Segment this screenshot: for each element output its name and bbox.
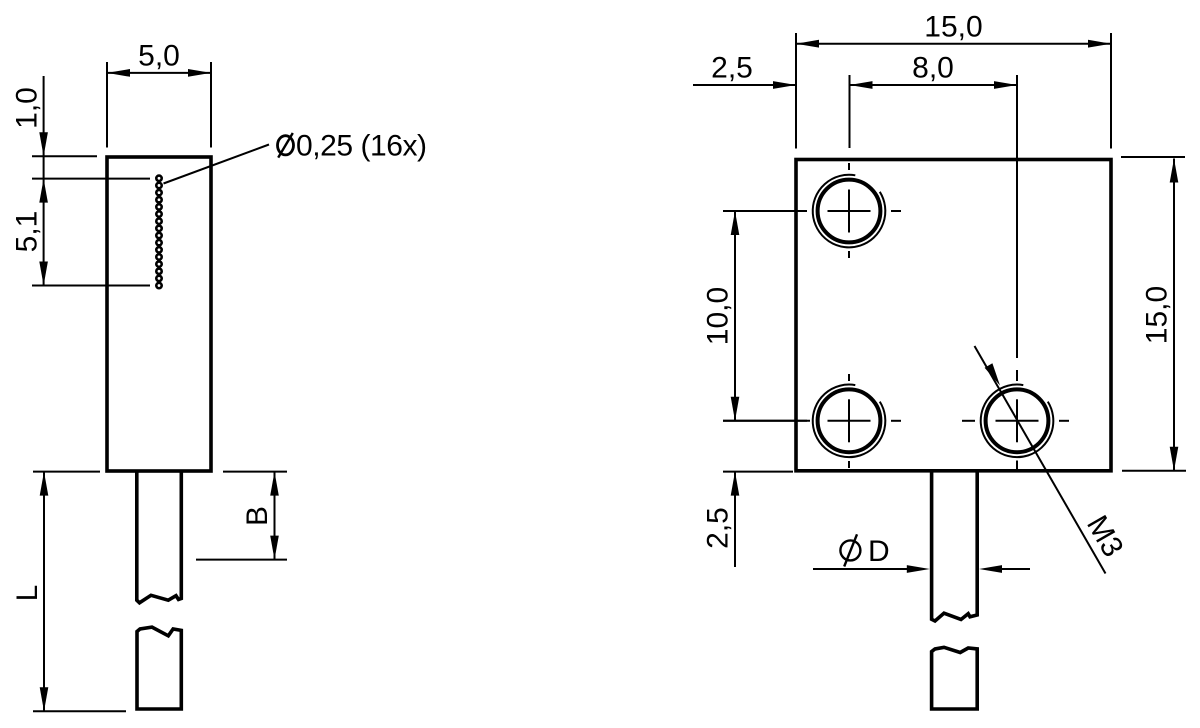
cable lower section with break (left view) [137,627,181,709]
svg-text:D: D [868,535,890,568]
svg-text:15,0: 15,0 [924,11,982,44]
dimension 5,1 hole row span [32,178,150,180]
leader line to fiber holes [164,145,270,184]
svg-text:5,0: 5,0 [138,40,180,73]
dimension B cable free length [223,471,287,473]
threaded hole top-left: bold circle and thread arc [818,180,881,243]
svg-text:M3: M3 [1080,510,1129,563]
cable lower section with break (right view) [932,647,978,709]
svg-text:5,1: 5,1 [10,211,43,253]
dimension 1,0 top edge to first hole [32,155,97,157]
M3 leader arrowhead [985,363,1000,385]
svg-text:0,25 (16x): 0,25 (16x) [296,130,427,163]
M3 thread leader line [975,346,1106,574]
svg-text:1,0: 1,0 [10,87,43,129]
threaded hole bottom-left: bold circle and thread arc [818,389,881,452]
svg-text:15,0: 15,0 [1141,286,1174,344]
dimension L total cable length [33,471,100,473]
dimension 8,0 hole spacing [849,75,851,148]
threaded hole bottom-right: bold circle and thread arc [986,389,1049,452]
dimension 15,0 plate width (top) [795,33,797,149]
mounting plate outline (right view) [796,160,1111,471]
dimension OD cable diameter [813,568,908,570]
svg-text:L: L [11,585,44,602]
dimension 10,0 vertical hole spacing [723,210,806,212]
svg-text:B: B [241,506,274,526]
fiber optic holes column O0,25 (16x) [156,176,161,289]
centerlines of bottom-left hole [828,420,871,422]
centerlines of bottom-right hole [996,420,1039,422]
label O0,25 (16x) with diameter symbol [278,130,427,163]
dimension 15,0 plate height (right) [1121,156,1185,158]
svg-text:2,5: 2,5 [711,51,753,84]
dimension 5,0 width of body [106,62,108,148]
cable upper section (left view) [137,471,182,603]
centerlines of top-left hole [828,210,871,212]
cable upper section (right view) [932,472,978,622]
dimension 2,5 edge to hole (top) [693,84,796,86]
svg-text:10,0: 10,0 [702,287,735,345]
svg-text:2,5: 2,5 [702,507,735,549]
dimension 2,5 hole to bottom edge [723,471,793,473]
sensor body outline (left view) [107,157,211,471]
svg-text:8,0: 8,0 [912,51,954,84]
